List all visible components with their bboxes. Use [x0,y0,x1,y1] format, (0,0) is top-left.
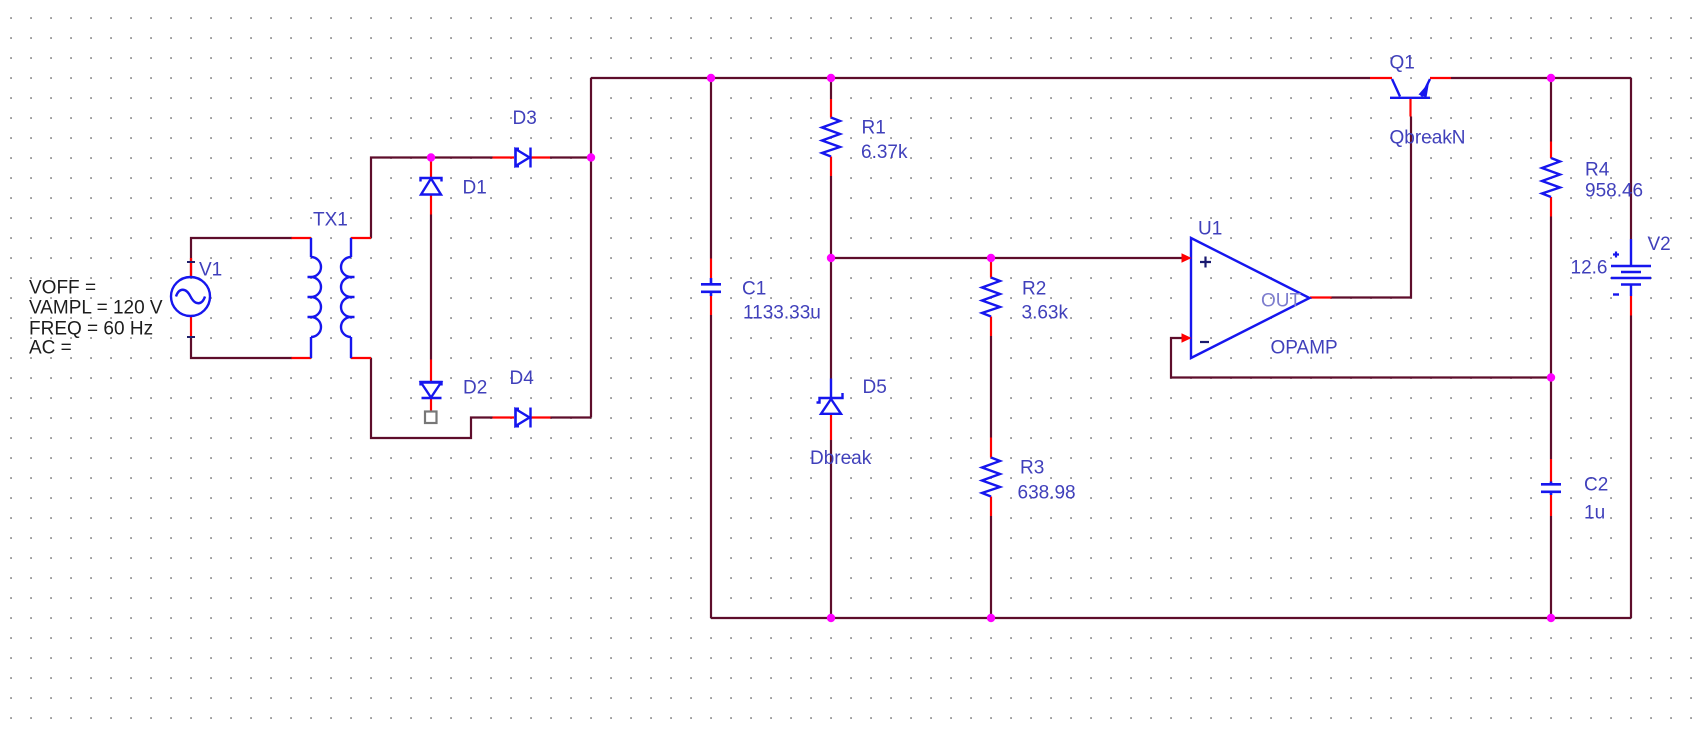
svg-text:OUT: OUT [1261,291,1302,312]
svg-text:D1: D1 [463,178,487,199]
pin V1 bottom lead [190,316,192,337]
svg-text:V2: V2 [1648,234,1671,255]
U1 plus input mark [1200,257,1211,268]
wire TX1 secondary top up to D3 row [371,158,493,239]
wire R3 bottom to bottom rail [990,516,992,618]
wire R4 column top [1550,78,1552,142]
wire D5 bottom to bottom rail [830,440,832,618]
wire C1 column upper [710,78,712,259]
capacitor C2 [1541,482,1561,496]
svg-text:6.37k: 6.37k [861,142,908,163]
pin C2 top lead [1550,459,1552,482]
wire V1 top to TX1 primary top [191,238,292,278]
svg-text:OPAMP: OPAMP [1271,338,1338,359]
wire mid rail to op-amp plus input [831,257,1182,259]
transistor Q1 [1390,79,1430,98]
label V1 parameters [29,278,163,359]
wire R1 bottom to mid rail [830,176,832,258]
resistor R1 [822,118,840,157]
wire C1 column lower [710,315,712,618]
Q1 emitter arrow [1419,83,1430,98]
svg-text:R1: R1 [862,118,886,139]
pin C1 bottom lead [710,296,712,315]
diode D3 [516,148,531,168]
pin D4 cathode lead [532,416,551,418]
svg-text:Dbreak: Dbreak [810,448,872,469]
wire C2 bottom to bottom rail [1550,516,1552,618]
transformer TX1 [308,238,355,358]
pin R2 top lead [990,261,992,278]
svg-text:VAMPL = 120 V: VAMPL = 120 V [29,298,163,319]
pin V2 bottom lead [1630,296,1632,316]
svg-text:3.63k: 3.63k [1022,303,1069,324]
pin Q1 collector lead [1370,77,1392,79]
pin D3 cathode lead [532,156,551,158]
pin D3 anode lead [493,156,515,158]
V1 minus mark [187,336,195,338]
node junction R2 top mid rail [987,254,995,262]
pin TX1 primary top lead [292,237,312,239]
node junction R3 bottom rail [987,614,995,622]
source V1 [171,277,210,316]
resistor R4 [1542,158,1560,197]
diode D1 [421,178,442,195]
svg-text:R4: R4 [1585,160,1610,181]
svg-text:D2: D2 [463,378,487,399]
pin D4 anode lead [493,416,515,418]
pin U1 output lead [1310,296,1332,298]
pin V1 top lead [190,258,192,278]
svg-text:1u: 1u [1584,503,1605,524]
pin Q1 base lead [1409,99,1411,117]
svg-text:1133.33u: 1133.33u [743,303,821,324]
wire V2 column bottom [1630,316,1632,619]
wire bottom rail [711,617,1631,619]
node junction R1 bottom mid rail [827,254,835,262]
U1 minus input arrow [1182,333,1192,343]
svg-text:FREQ = 60 Hz: FREQ = 60 Hz [29,319,153,340]
pin R3 bottom lead [990,497,992,517]
svg-text:12.6: 12.6 [1571,258,1608,279]
resistor R2 [982,278,1000,317]
node junction D5 bottom rail [827,614,835,622]
svg-text:D4: D4 [510,368,535,389]
svg-text:AC =: AC = [29,338,72,359]
svg-text:V1: V1 [199,260,222,281]
svg-text:638.98: 638.98 [1018,483,1076,504]
pin TX1 primary bottom lead [292,357,312,359]
wire left vertical bus x591 [590,78,592,418]
wire R1 top stub [830,78,832,99]
zener diode D5 [817,379,843,414]
node junction feedback R4 C2 [1547,373,1555,381]
pin R4 bottom lead [1550,197,1552,217]
pin R4 top lead [1550,142,1552,159]
node junction R4 top rail [1547,74,1555,82]
node junction D1 top [427,153,435,161]
pin D2 cathode lead [430,399,432,412]
svg-text:VOFF =: VOFF = [29,278,96,299]
pin D1 cathode lead [430,195,432,215]
U1 minus input mark [1200,341,1209,343]
node junction C1 top rail [707,74,715,82]
pin C2 bottom lead [1550,495,1552,516]
V2 plus mark [1613,252,1619,258]
svg-text:D5: D5 [863,377,887,398]
svg-text:Q1: Q1 [1390,53,1415,74]
svg-text:R3: R3 [1020,458,1044,479]
wire R2 bottom to R3 top [990,336,992,438]
wire top rail left of Q1 [591,77,1370,79]
pin Q1 emitter lead [1430,77,1451,79]
V2 minus mark [1613,293,1619,295]
wire D5 column upper [830,258,832,379]
svg-text:C2: C2 [1584,475,1608,496]
wire op-amp output to Q1 base [1332,117,1412,298]
V1 plus mark [187,261,195,263]
wire D1 to D2 vertical [430,215,432,360]
svg-text:U1: U1 [1198,219,1222,240]
wire V1 bottom to TX1 primary bottom [191,337,292,358]
pin D5 anode lead [830,415,832,440]
pin TX1 secondary bottom lead [351,357,371,359]
diode D4 [516,408,531,428]
svg-text:C1: C1 [742,279,766,300]
pin R2 bottom lead [990,317,992,337]
wire op-amp minus feedback loop [1171,338,1551,378]
wire R4 bottom through feedback node to C2 [1550,217,1552,460]
pin TX1 secondary top lead [351,237,371,239]
pin R3 top lead [990,438,992,458]
node junction D3 out [587,153,595,161]
node junction R1 top rail [827,74,835,82]
pin R1 top lead [830,99,832,118]
capacitor C1 [701,278,721,296]
diode D2 [421,382,442,398]
node junction C2 bottom rail [1547,614,1555,622]
wire V2 column top [1630,78,1632,239]
svg-text:D3: D3 [513,108,537,129]
wire D4 cathode to x591 [551,416,592,418]
resistor R3 [982,458,1000,497]
wire D3 cathode to node at x591 [550,156,591,158]
no-connect square D2 cathode [425,412,437,424]
pin D2 anode lead [430,360,432,383]
svg-text:QbreakN: QbreakN [1390,128,1466,149]
svg-text:TX1: TX1 [313,210,348,231]
svg-text:R2: R2 [1022,279,1046,300]
pin D1 anode lead [430,161,432,178]
op-amp U1 [1191,238,1310,358]
wire TX1 secondary bottom to D4 row [371,358,493,438]
pin C1 top lead [710,259,712,279]
svg-text:958.46: 958.46 [1585,181,1643,202]
pin R1 bottom lead [830,157,832,177]
U1 plus input arrow [1182,253,1192,263]
wire top rail right of Q1 [1451,77,1631,79]
battery V2 [1611,239,1651,296]
